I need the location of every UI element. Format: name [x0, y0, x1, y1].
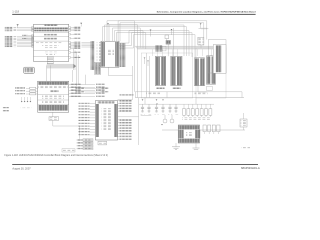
- U1 divider: [34, 32, 69, 34]
- U6 outline: [95, 101, 117, 140]
- U6 input row 2: [79, 106, 90, 107]
- label box under U5: [49, 117, 59, 121]
- J3 label row 11: [118, 133, 120, 135]
- hatch under caps: [182, 118, 210, 120]
- U1 right pin row R4: [69, 34, 71, 36]
- flag node P2: [156, 99, 158, 100]
- flag node P3: [161, 124, 163, 125]
- shield box group1: [141, 53, 193, 98]
- label under U6: [98, 141, 107, 145]
- wire U2 bottom L: [109, 67, 133, 76]
- flag node E: [171, 29, 173, 31]
- J3 label row 1: [118, 100, 120, 102]
- wire: [80, 24, 82, 26]
- capacitor C8: [187, 109, 190, 115]
- J3 label row 13: [118, 138, 120, 140]
- U5 center label: [50, 91, 59, 93]
- U5 row text: [42, 95, 64, 99]
- U1 bottom boxes: [47, 56, 53, 58]
- U1 right pin row R9: [69, 46, 71, 48]
- resistor pack RP3: [30, 93, 36, 95]
- U4b outline: [207, 56, 216, 85]
- capacitor C12: [203, 125, 206, 132]
- wire flag F: [200, 25, 202, 29]
- U1 right pin row R11: [69, 52, 71, 54]
- group1 label strip: [146, 92, 160, 95]
- label rows above U3a: [155, 45, 162, 51]
- svg-text:Schematics, Component Location: Schematics, Component Location Diagrams,…: [157, 11, 257, 14]
- small box above U3a: [162, 46, 166, 51]
- U6 input row 12: [79, 134, 90, 135]
- component Y2 box: [198, 37, 204, 45]
- wire D1: [243, 113, 245, 119]
- wire group1 feed 2: [149, 56, 151, 98]
- wire U1 to U5: [46, 65, 48, 81]
- flag TP1: [21, 97, 23, 101]
- U4a pin text: [195, 58, 199, 85]
- wire U1-U2 row4: [82, 46, 95, 48]
- flag node D: [147, 61, 149, 62]
- wire U8 down: [85, 75, 87, 85]
- transistor Q2: [171, 115, 173, 119]
- U1 right pin row R12: [69, 57, 71, 59]
- wire U1 to U5 b: [50, 65, 52, 81]
- U5 bottom pin grid: [38, 105, 67, 111]
- bus riser group from U2: [107, 21, 146, 98]
- rail drop a: [166, 92, 168, 98]
- U1 row2 text: [44, 34, 57, 35]
- U2 left pins: [102, 42, 105, 67]
- flag TP2: [24, 97, 26, 101]
- bus ticks: [201, 28, 203, 30]
- U7 pin hatch right: [195, 130, 200, 138]
- wire J3 out vertical: [138, 98, 140, 145]
- U6 input row 11: [79, 131, 90, 132]
- U7 pin hatch top: [179, 125, 200, 129]
- J4 pin box 3: [83, 145, 93, 147]
- bus stub J2 top: [199, 28, 209, 30]
- net label row L1: [5, 27, 13, 28]
- flag node G: [150, 30, 152, 32]
- net label row L10: [5, 44, 13, 45]
- wire label right: [120, 94, 134, 95]
- J3 label row 4: [118, 108, 120, 110]
- flag node C: [144, 58, 146, 59]
- wire Y2 down: [200, 45, 202, 48]
- J3 label row 2: [118, 102, 120, 104]
- header rule: [12, 13, 255, 16]
- U1 divider: [34, 36, 69, 38]
- U6 input row 10: [79, 128, 90, 129]
- U1 row4 text c: [44, 47, 57, 48]
- U6 right pins: [114, 104, 117, 137]
- J2 connector outline: [208, 40, 226, 73]
- U7 pin hatch left: [179, 130, 184, 138]
- U1 divider: [34, 50, 69, 52]
- power rail lower: [135, 97, 244, 99]
- flag TP3: [27, 97, 29, 101]
- net row M5: [69, 96, 95, 98]
- left edge labels b: [3, 110, 9, 111]
- net label row L4: [5, 36, 13, 37]
- rail connector: [134, 92, 136, 98]
- U3b pin text right: [177, 57, 182, 85]
- U5 top pin row: [38, 86, 68, 89]
- wire flag E: [171, 31, 173, 36]
- capacitor C14: [212, 125, 215, 132]
- rail segment 3: [139, 103, 214, 105]
- U6 input row 1: [79, 103, 90, 104]
- U6 input row 8: [79, 123, 90, 124]
- bus lines to top right: [103, 21, 207, 58]
- U5 divider: [38, 99, 69, 101]
- U1 right pin row R8: [69, 45, 71, 47]
- U1 row5 text: [44, 52, 57, 53]
- U1 row5 text b: [46, 54, 55, 55]
- U2 part number: [107, 49, 115, 55]
- U5 divider: [38, 93, 69, 95]
- U6 left pins: [96, 104, 99, 137]
- net label row L9: [5, 43, 13, 44]
- U5 title bar: [38, 82, 68, 85]
- J3 label row 12: [118, 135, 120, 137]
- capacitor C3: [156, 104, 158, 107]
- J3 label row 3: [118, 105, 120, 107]
- net row M2: [69, 87, 95, 89]
- net label row L3: [5, 30, 13, 31]
- ground sym G3: [193, 147, 200, 149]
- left edge labels: [3, 107, 9, 108]
- bus drops to U3/U4: [153, 49, 217, 56]
- wire right drop 2: [76, 53, 78, 71]
- U1 row3 text: [44, 38, 57, 40]
- U1 right pin row R1: [69, 27, 71, 29]
- bus band: [47, 64, 74, 69]
- U6 title: [98, 101, 115, 103]
- U1 divider: [34, 55, 69, 57]
- diode D1: [240, 119, 247, 127]
- wire R10: [166, 39, 168, 41]
- U6 input row 4: [79, 111, 90, 112]
- rail segment 4: [141, 115, 152, 117]
- flag node P4: [156, 104, 158, 105]
- U1 right pin row R6: [69, 42, 71, 44]
- U1 right pin row R3: [69, 30, 71, 32]
- net label row L6: [5, 39, 13, 40]
- U5 row text b: [42, 101, 64, 104]
- U6 input row 9: [79, 126, 90, 127]
- svg-text:August 30, 2007: August 30, 2007: [12, 167, 31, 170]
- U6 input row 3: [79, 108, 90, 109]
- U1 right pin row R7: [69, 43, 71, 45]
- U1 title: [45, 25, 58, 26]
- U3b label: [173, 88, 181, 89]
- U7 pin hatch bottom: [179, 139, 200, 143]
- transistor Q1: [164, 115, 166, 119]
- wire flag G: [150, 31, 152, 37]
- wire right drop 3: [74, 51, 76, 71]
- capacitor C12: [205, 109, 208, 115]
- capacitor C13: [209, 109, 212, 115]
- wire under U5: [52, 120, 54, 126]
- capacitor C2: [148, 104, 150, 107]
- capacitor C9: [191, 109, 194, 115]
- U3a pin text: [156, 57, 160, 85]
- U1 header pin rows b: [34, 30, 68, 32]
- ground sym G2: [172, 146, 180, 148]
- wire col riser: [172, 28, 174, 56]
- wire from bus down to U6: [118, 66, 133, 100]
- latch U8: [95, 62, 101, 74]
- U4b label box: [207, 86, 212, 90]
- wire group1 feed 1: [146, 53, 148, 98]
- wire right drop 4: [77, 55, 79, 84]
- wire right drop 1: [73, 49, 75, 71]
- net label row L7: [5, 40, 13, 41]
- U2 pin numbers left: [97, 42, 101, 68]
- bottom right ref text: [241, 147, 250, 149]
- footer rule: [12, 163, 258, 166]
- rail drop b: [144, 98, 146, 105]
- capacitor C10: [196, 109, 199, 115]
- U2 left pin labels: [90, 41, 94, 70]
- J3 label row 7: [118, 122, 120, 124]
- J4 pin box 4: [83, 148, 93, 150]
- U6 input row 5: [79, 114, 90, 115]
- net row M1: [69, 84, 95, 86]
- svg-text:Figure 1-118. HUF4017A/HUF401: Figure 1-118. HUF4017A/HUF4019A Controll…: [4, 154, 108, 157]
- J3 label row 5: [118, 110, 120, 112]
- J2 pin text: [216, 45, 221, 72]
- wire group2: [197, 86, 199, 92]
- U1 right pin row R2: [69, 28, 71, 30]
- U3a pin text right: [161, 57, 165, 85]
- U4a outline: [195, 58, 205, 86]
- J2 inner box: [213, 45, 226, 74]
- wire U1-U2 row3: [82, 45, 95, 47]
- capacitor C13: [208, 125, 211, 132]
- net label row L2: [5, 28, 13, 29]
- net label row L11: [5, 46, 13, 47]
- address bus bundle: [135, 46, 226, 49]
- wire U1-U2 row1: [82, 41, 95, 43]
- flag node A: [80, 23, 82, 25]
- group2 label strip: [195, 92, 208, 95]
- U5 divider: [38, 103, 69, 105]
- U1 right pin row R5: [69, 38, 71, 40]
- net label row L8: [5, 42, 13, 43]
- U2 right pins: [115, 42, 118, 67]
- capacitor C4: [162, 104, 164, 107]
- wire Y1 down: [167, 44, 169, 56]
- U4a pin text right: [200, 58, 204, 85]
- U4b pin text right: [212, 56, 216, 83]
- J4 pin box 1: [83, 139, 93, 141]
- svg-text:6816533H01-A: 6816533H01-A: [241, 166, 260, 170]
- bus wedge: [73, 64, 76, 69]
- U4b pin text: [207, 56, 211, 83]
- U1 right pin row R10: [69, 48, 71, 50]
- U6 input row 6: [79, 117, 90, 118]
- flag node B: [107, 23, 109, 25]
- U1 header pin rows: [34, 28, 68, 30]
- resistor pack RP2: [30, 90, 36, 92]
- capacitor C7: [183, 109, 186, 115]
- block U1 outline: [34, 24, 69, 61]
- net label row L5: [5, 37, 13, 38]
- U1 left pin: [32, 38, 34, 40]
- resistor pack RP1: [30, 87, 36, 89]
- capacitor C15: [217, 125, 220, 132]
- U3b outline: [171, 56, 182, 85]
- wire U7 down: [175, 143, 177, 147]
- J3 label row 9: [118, 127, 120, 129]
- wire U1-U2 row2: [82, 43, 95, 45]
- wire J3 mid: [118, 116, 139, 118]
- U2 right labels: [120, 43, 126, 67]
- U2 outline: [101, 41, 119, 67]
- net row M3: [69, 90, 95, 92]
- J4 pin box 2: [83, 142, 93, 144]
- U3b pin text: [171, 57, 175, 85]
- small ref box bottom-left: [62, 149, 75, 152]
- U3a outline: [155, 56, 165, 85]
- net row M4: [69, 93, 95, 95]
- svg-text:1-118: 1-118: [12, 10, 19, 14]
- capacitor C1: [142, 104, 144, 107]
- U6 input row 7: [79, 120, 90, 121]
- flag TP4: [29, 97, 31, 101]
- U1 divider: [34, 40, 69, 42]
- J3 label row 8: [118, 124, 120, 126]
- flag node P1: [142, 99, 144, 100]
- U3a label: [157, 88, 165, 89]
- U5 bottom stub: [52, 112, 54, 117]
- note box N1: [24, 67, 35, 73]
- capacitor C5: [169, 104, 171, 107]
- supply rail mid: [162, 129, 245, 131]
- U7 center label: [186, 132, 193, 137]
- power rail upper: [135, 91, 242, 93]
- connector flag J1: [17, 24, 19, 26]
- flag node P5: [162, 99, 164, 100]
- U7 regulator outline: [178, 125, 199, 143]
- shield box group2: [196, 48, 226, 98]
- U5 outline: [38, 81, 69, 112]
- U6 center text: [102, 108, 113, 130]
- rows above U6: [76, 88, 85, 89]
- J3 label row 10: [118, 130, 120, 132]
- capacitor C6: [175, 104, 177, 107]
- U1 row4 text b: [42, 45, 59, 46]
- J3 label row 6: [118, 119, 120, 121]
- misc boxes below U1: [47, 62, 53, 64]
- U1 left pin: [32, 35, 34, 37]
- flag node F: [200, 23, 202, 25]
- capacitor C11: [200, 109, 203, 115]
- wire: [17, 26, 19, 28]
- crystal Y1: [166, 40, 171, 44]
- resistor R10 box: [165, 35, 169, 39]
- U1 row4 text: [36, 42, 62, 43]
- wires above U5: [72, 70, 74, 82]
- wire: [144, 59, 146, 64]
